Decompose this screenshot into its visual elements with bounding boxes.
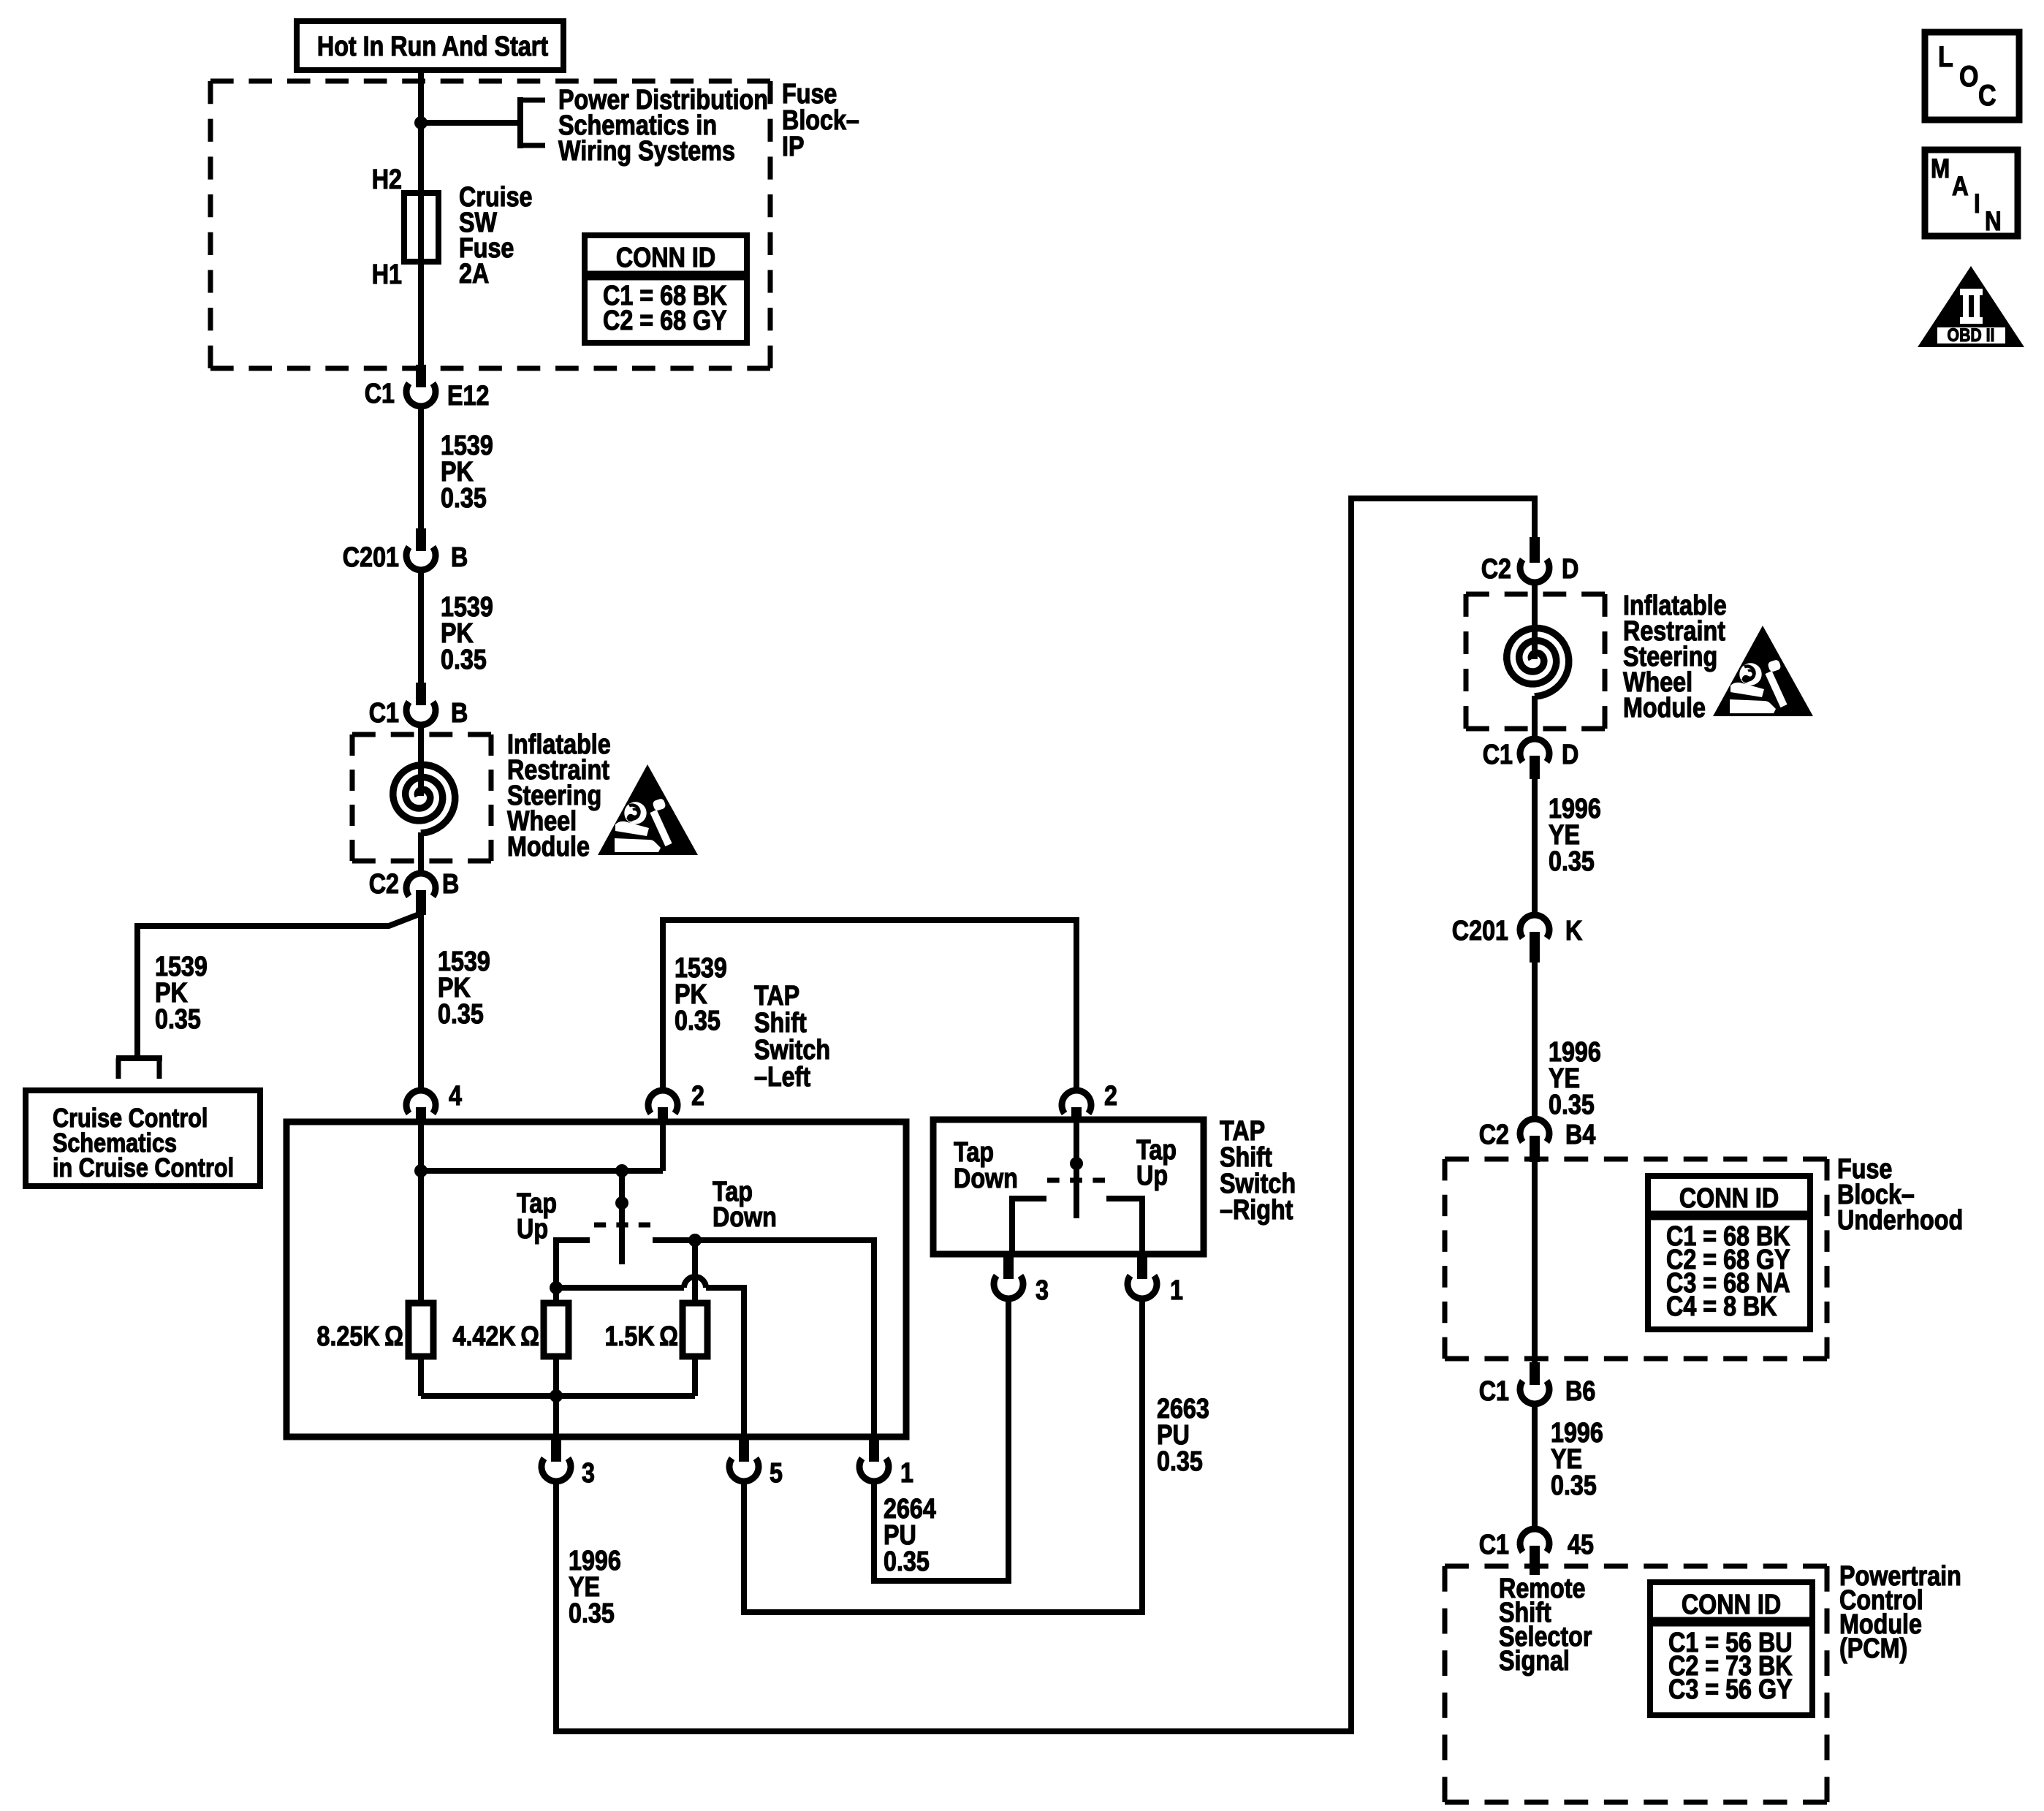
svg-text:C1: C1 [1479, 1530, 1509, 1560]
svg-text:Module: Module [507, 832, 590, 862]
continuation bracket (Power Distribution Schematics) [517, 97, 523, 148]
svg-text:0.35: 0.35 [675, 1006, 721, 1036]
resistor 8.25K [409, 1303, 433, 1356]
switch pole (right box) [1074, 1123, 1079, 1218]
wire from pin2 top run [663, 920, 1076, 1089]
svg-text:Up: Up [1136, 1161, 1168, 1191]
wire into right coil [1532, 583, 1538, 659]
connector pin 1 (right box) [1137, 1254, 1147, 1279]
Tap Down contact [653, 1240, 695, 1303]
SIR caution triangle (left) [598, 764, 698, 855]
svg-text:Shift: Shift [754, 1008, 807, 1039]
LOC reference box [1925, 32, 2019, 120]
SIR coil dashed box (steering wheel module, left) [352, 732, 491, 737]
svg-text:N: N [1985, 207, 2002, 237]
resistor 4.42K [544, 1303, 569, 1356]
svg-text:C1: C1 [1479, 1376, 1509, 1407]
svg-text:0.35: 0.35 [1549, 846, 1595, 877]
connector pin 1 (left box) [869, 1437, 879, 1462]
clockspring coil (right) [1507, 629, 1569, 697]
svg-text:0.35: 0.35 [441, 645, 487, 675]
Fuse Block-Underhood dashed box [1445, 1157, 1827, 1162]
connector C1 / E12 [416, 365, 426, 387]
wire 1539 PK to TAP switch left pin 4 [418, 914, 424, 1089]
svg-text:B: B [442, 869, 459, 900]
svg-text:A: A [1952, 172, 1969, 202]
svg-text:B: B [451, 698, 468, 729]
svg-text:C201: C201 [343, 542, 399, 573]
svg-text:5: 5 [770, 1458, 783, 1489]
svg-text:3: 3 [1036, 1275, 1049, 1306]
wire: battery feed into fuse H2 [418, 70, 424, 195]
svg-text:–Right: –Right [1220, 1195, 1293, 1226]
connector pin 2 (TAP switch left) [648, 1090, 677, 1113]
Tap Up contact [556, 1240, 590, 1303]
CONN ID table (underhood) [1648, 1176, 1810, 1329]
connector pin 2 (TAP switch right) [1062, 1090, 1091, 1113]
svg-text:3: 3 [582, 1458, 595, 1489]
svg-text:C2: C2 [1479, 1120, 1509, 1150]
svg-text:C: C [1978, 78, 1996, 111]
node: junction at power distribution branch [414, 116, 428, 129]
connector C201 / B [416, 528, 426, 551]
svg-text:0.35: 0.35 [1157, 1446, 1203, 1477]
SIR coil dashed box (right) [1466, 592, 1605, 597]
wire through fuse block [1532, 1162, 1538, 1362]
svg-text:8.25K Ω: 8.25K Ω [316, 1321, 403, 1352]
connector C1 / 45 [1520, 1529, 1549, 1552]
svg-text:CONN ID: CONN ID [616, 243, 715, 273]
svg-text:TAP: TAP [754, 981, 799, 1011]
svg-text:(PCM): (PCM) [1839, 1633, 1907, 1664]
svg-text:0.35: 0.35 [569, 1598, 615, 1629]
Tap Up contact (right box) [1106, 1199, 1142, 1254]
svg-text:Signal: Signal [1499, 1646, 1570, 1677]
connector C2 / B4 [1520, 1119, 1549, 1142]
node: Tap Up arm junction [550, 1281, 563, 1294]
svg-text:H1: H1 [372, 259, 402, 290]
svg-text:Module: Module [1623, 693, 1706, 724]
svg-text:B: B [451, 542, 468, 573]
power feed box "Hot In Run And Start" [297, 21, 563, 70]
svg-text:IP: IP [782, 132, 805, 162]
connector C1 / D [1520, 739, 1549, 762]
Fuse Block-IP dashed box [210, 79, 770, 84]
wire out of coil [418, 832, 424, 874]
switch gang dashed link [594, 1223, 650, 1228]
svg-text:C201: C201 [1452, 916, 1508, 946]
svg-text:E12: E12 [447, 381, 489, 411]
svg-text:C2: C2 [369, 869, 399, 900]
wire: fuse H1 to connector C1 E12 [418, 262, 424, 369]
svg-text:0.35: 0.35 [884, 1546, 930, 1577]
connector pin 3 (right box) [1003, 1254, 1014, 1279]
fuse "Cruise SW Fuse 2A" [404, 193, 438, 262]
svg-text:4: 4 [449, 1081, 462, 1112]
svg-text:0.35: 0.35 [438, 999, 484, 1030]
svg-text:C4 = 8 BK: C4 = 8 BK [1666, 1291, 1777, 1322]
wire 1996 YE [1532, 779, 1538, 916]
connector C201 / K [1520, 915, 1549, 938]
Tap Down contact (right box) [1012, 1199, 1046, 1254]
svg-text:Underhood: Underhood [1837, 1205, 1963, 1236]
svg-text:C1: C1 [1483, 740, 1513, 770]
wire 1539 PK segment 1 [418, 406, 424, 533]
wire out of right coil [1532, 696, 1538, 740]
wire: top rail from pin 2 [660, 1125, 666, 1171]
connector pin 5 (left box) [739, 1437, 749, 1462]
connector pin 4 (TAP switch left) [406, 1090, 436, 1113]
svg-text:0.35: 0.35 [441, 483, 487, 514]
svg-text:Hot In Run And Start: Hot In Run And Start [317, 31, 548, 62]
svg-text:C2 = 68 GY: C2 = 68 GY [603, 305, 727, 336]
MAIN reference box [1925, 150, 2018, 236]
svg-text:L: L [1938, 39, 1953, 72]
CONN ID table (PCM) [1650, 1582, 1812, 1715]
svg-text:D: D [1562, 740, 1578, 770]
svg-text:C1: C1 [365, 379, 395, 409]
svg-text:C3 = 56 GY: C3 = 56 GY [1668, 1674, 1793, 1705]
svg-text:0.35: 0.35 [155, 1004, 201, 1035]
clockspring coil (left) [393, 765, 455, 834]
wire to cruise control schematics (1539 PK branch) [137, 914, 421, 1057]
svg-text:0.35: 0.35 [1551, 1470, 1597, 1501]
svg-text:CONN ID: CONN ID [1682, 1590, 1781, 1620]
connector C2 / B [406, 873, 436, 896]
wire with hop to pin 5 [556, 1285, 684, 1291]
SIR caution triangle (right) [1713, 626, 1813, 716]
node: switch common junction [615, 1164, 628, 1177]
svg-text:Wiring Systems: Wiring Systems [558, 136, 735, 167]
resistor 1.5K [683, 1303, 707, 1356]
PCM dashed box [1445, 1564, 1827, 1569]
CONN ID table (Fuse Block-IP) [585, 235, 747, 343]
svg-text:in Cruise Control: in Cruise Control [53, 1154, 234, 1183]
wire 1539 PK segment 2 [418, 570, 424, 687]
svg-text:1: 1 [900, 1458, 913, 1489]
svg-text:1: 1 [1170, 1275, 1183, 1306]
svg-text:Up: Up [517, 1214, 548, 1245]
svg-text:Switch: Switch [754, 1035, 830, 1066]
wire: pin4 lead down to 8.25K [418, 1125, 424, 1303]
wire from pin 5 to right switch pin 1 [744, 1299, 1142, 1612]
svg-text:–Left: –Left [754, 1062, 810, 1093]
TAP Shift Switch-Right box [933, 1120, 1204, 1254]
svg-text:D: D [1562, 554, 1578, 585]
svg-text:H2: H2 [372, 164, 402, 195]
TAP Shift Switch-Left box [286, 1122, 906, 1437]
svg-text:1.5K Ω: 1.5K Ω [604, 1321, 678, 1352]
svg-text:K: K [1565, 916, 1583, 946]
wire 2664 PU pin1-left to pin3-right [874, 1299, 1008, 1581]
svg-text:C1: C1 [369, 698, 399, 729]
svg-text:Down: Down [954, 1163, 1018, 1194]
reference box Cruise Control Schematics [26, 1090, 260, 1186]
wire: Tap Down to pin 1 [695, 1240, 874, 1437]
svg-text:Down: Down [713, 1202, 777, 1233]
svg-text:O: O [1959, 59, 1978, 92]
wire 1996 YE from pin 3 (remote shift selector signal) [556, 498, 1535, 1731]
svg-text:45: 45 [1568, 1530, 1594, 1560]
svg-text:2: 2 [691, 1081, 704, 1112]
connector C2 / D [1530, 537, 1540, 563]
wire into coil [418, 725, 424, 796]
svg-text:2A: 2A [459, 259, 489, 289]
svg-text:M: M [1931, 154, 1950, 184]
svg-text:B4: B4 [1565, 1120, 1596, 1150]
continuation bracket (Cruise Control) [116, 1055, 162, 1061]
OBD II triangle [1918, 266, 2024, 347]
gang dashed link (right box) [1047, 1178, 1105, 1183]
connector C1 / B6 [1530, 1362, 1540, 1385]
svg-text:I: I [1974, 189, 1980, 219]
svg-text:OBD II: OBD II [1948, 324, 1995, 345]
svg-text:B6: B6 [1565, 1376, 1595, 1407]
wire: branch to power distribution schematics [421, 120, 520, 126]
svg-text:4.42K Ω: 4.42K Ω [452, 1321, 539, 1352]
wire 1996 YE [1532, 1405, 1538, 1530]
wire 1996 YE [1532, 963, 1538, 1120]
resistor bottom leads and rail [418, 1356, 424, 1396]
svg-text:C2: C2 [1481, 554, 1511, 585]
switch common pole [619, 1171, 625, 1264]
svg-text:2: 2 [1104, 1081, 1117, 1112]
connector pin 3 (left box) [551, 1437, 561, 1462]
node: bottom rail junction to pin 3 [550, 1389, 563, 1402]
svg-text:0.35: 0.35 [1549, 1090, 1595, 1120]
connector C1 / B [416, 683, 426, 705]
svg-text:CONN ID: CONN ID [1679, 1183, 1779, 1214]
